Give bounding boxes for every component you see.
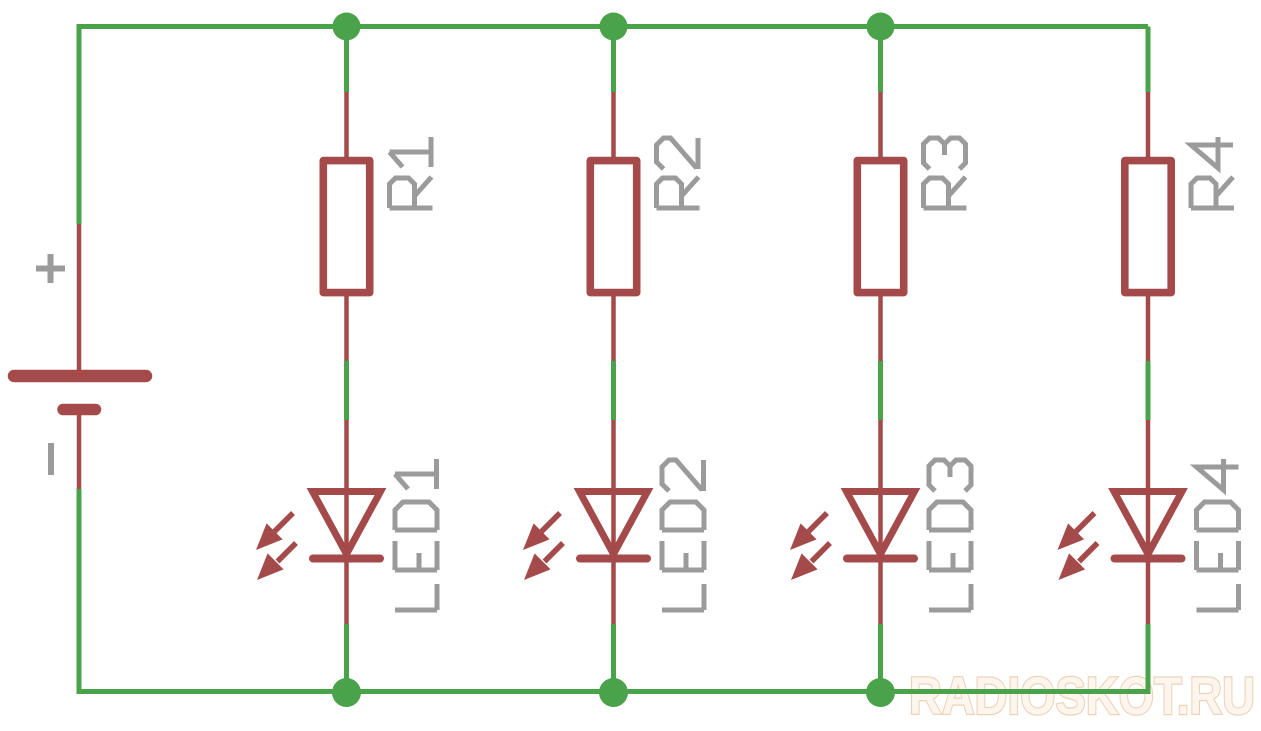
LED3 cathode bar (847, 555, 914, 563)
label: battery minus sign (48, 443, 54, 475)
LED4 anode pin and through-wire (1146, 420, 1151, 560)
svg-text:RADIOSKOT.RU: RADIOSKOT.RU (909, 667, 1255, 726)
LED4 light arrow 1 (1058, 513, 1095, 550)
label R1 (390, 137, 433, 208)
label R3 (924, 138, 967, 208)
label LED2 (662, 460, 704, 610)
LED4 cathode pin (1146, 560, 1151, 624)
battery G1 positive pin (77, 224, 82, 371)
wire: branch 4 top net (1146, 27, 1151, 93)
wire: branch 2 top net (611, 27, 616, 93)
label LED3 (929, 460, 971, 610)
LED1 light arrow 1 (256, 513, 293, 550)
LED3 cathode pin (878, 560, 883, 624)
wire: top positive rail (79, 24, 1148, 29)
LED3 triangle (anode) (847, 492, 915, 555)
battery G1 negative plate (63, 404, 96, 416)
LED2 light arrow 1 (523, 513, 560, 550)
wire: branch 1 net between R1 and LED1 (344, 361, 349, 420)
LED3 anode pin and through-wire (878, 420, 883, 560)
LED1 cathode pin (344, 560, 349, 624)
junction (bottom rail) (599, 678, 628, 707)
resistor R3 body (857, 161, 903, 293)
LED2 triangle (anode) (580, 492, 648, 555)
label R2 (657, 138, 700, 208)
wire: branch 4 bottom net (1146, 624, 1151, 694)
wire: branch 3 bottom net (878, 624, 883, 694)
LED1 light arrow 2 (257, 543, 296, 580)
wire: branch 3 top net (878, 27, 883, 93)
junction (bottom rail) (866, 678, 895, 707)
resistor R1 body (323, 161, 369, 293)
wire: branch 4 net between R4 and LED4 (1146, 361, 1151, 420)
wire: battery positive lead (net) (77, 24, 82, 224)
wire: branch 2 bottom net (611, 624, 616, 694)
LED4 triangle (anode) (1114, 492, 1182, 555)
resistor R2 body (590, 161, 636, 293)
battery G1 negative pin (77, 414, 82, 489)
resistor R1 top pin (344, 92, 349, 162)
LED2 cathode bar (580, 555, 647, 563)
LED2 anode pin and through-wire (611, 420, 616, 560)
LED1 triangle (anode) (313, 492, 381, 555)
LED3 light arrow 2 (791, 543, 830, 580)
wire: branch 1 top net (344, 27, 349, 93)
wire: branch 2 net between R2 and LED2 (611, 361, 616, 420)
LED4 cathode bar (1115, 555, 1182, 563)
LED1 cathode bar (313, 555, 380, 563)
label R4 (1191, 137, 1234, 208)
LED4 light arrow 2 (1059, 543, 1098, 580)
LED2 light arrow 2 (524, 543, 563, 580)
resistor R3 top pin (878, 92, 883, 162)
wire: branch 1 bottom net (344, 624, 349, 694)
battery G1 positive plate (14, 370, 146, 383)
label LED1 (395, 459, 437, 610)
label: battery plus sign (36, 254, 65, 283)
wire: branch 3 net between R3 and LED3 (878, 361, 883, 420)
junction (bottom rail) (332, 678, 361, 707)
resistor R3 bottom pin (878, 292, 883, 361)
junction (top rail) (600, 13, 628, 41)
resistor R2 bottom pin (611, 292, 616, 361)
label LED4 (1197, 459, 1239, 610)
resistor R2 top pin (611, 92, 616, 162)
resistor R1 bottom pin (344, 292, 349, 361)
LED3 light arrow 1 (790, 513, 827, 550)
wire: bottom negative rail (79, 689, 1148, 694)
resistor R4 top pin (1146, 92, 1151, 162)
wire: battery negative lead (net) (77, 489, 82, 694)
LED1 anode pin and through-wire (344, 420, 349, 560)
LED2 cathode pin (611, 560, 616, 624)
junction (top rail) (333, 13, 361, 41)
junction (top rail) (867, 13, 895, 41)
resistor R4 body (1125, 161, 1171, 293)
resistor R4 bottom pin (1146, 292, 1151, 361)
